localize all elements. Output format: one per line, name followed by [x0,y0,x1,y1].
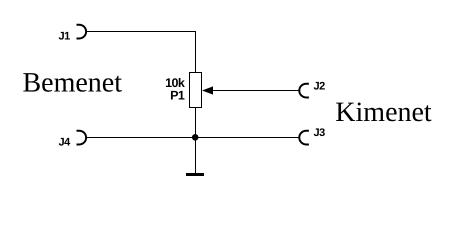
wire P1 wiper to J2 [212,90,299,92]
svg-text:Bemenet: Bemenet [23,68,123,99]
wire P1 bottom to junction and ground [195,107,197,173]
potentiometer P1 wiper arrow [202,86,213,94]
svg-text:10k: 10k [165,76,185,90]
junction dot [192,134,199,141]
svg-text:J3: J3 [314,127,326,139]
svg-text:Kimenet: Kimenet [335,97,432,128]
svg-text:P1: P1 [170,89,185,103]
svg-text:J2: J2 [314,81,326,93]
connector J4 [77,131,87,145]
wire corner down to P1 top [195,31,197,73]
svg-text:J4: J4 [59,136,72,148]
potentiometer P1 body [190,73,202,108]
wire J1 to corner [86,31,195,33]
connector J3 [299,131,309,145]
wire J4 to J3 (bottom net) [86,137,299,139]
ground [186,173,204,176]
connector J2 [299,84,309,98]
svg-text:J1: J1 [59,31,71,43]
connector J1 [77,25,87,39]
